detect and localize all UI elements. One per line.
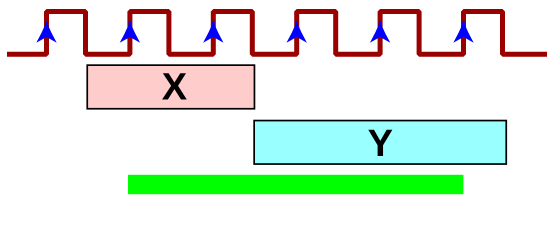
signal X box xyxy=(87,65,254,109)
signal Y box xyxy=(254,121,506,165)
sampling arrow 5 xyxy=(370,22,390,43)
sampling arrow 6 xyxy=(453,22,473,43)
svg-text:X: X xyxy=(162,67,188,109)
svg-text:Y: Y xyxy=(368,123,393,165)
sampling arrow 3 xyxy=(203,22,223,43)
sampling arrow 2 xyxy=(120,22,140,43)
enable bar xyxy=(128,175,463,194)
sampling arrow 4 xyxy=(287,22,307,43)
clock waveform CLK xyxy=(7,12,547,55)
sampling arrow 1 xyxy=(36,22,56,43)
